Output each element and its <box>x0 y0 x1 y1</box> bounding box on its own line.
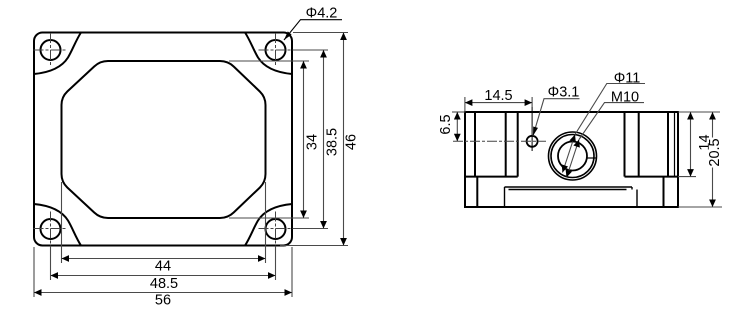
dim line 56 <box>34 292 292 294</box>
svg-text:Φ3.1: Φ3.1 <box>548 84 580 100</box>
inner vertical right 3 <box>624 112 626 177</box>
body ear curve top-right <box>245 33 292 75</box>
svg-text:38.5: 38.5 <box>325 128 341 156</box>
leader M10 <box>579 103 644 140</box>
radial line right <box>587 157 597 159</box>
inner vertical right 2 <box>638 112 640 177</box>
dim line 6.5 <box>456 112 458 141</box>
step line right <box>625 176 679 178</box>
text 20.5 (rotated) <box>709 138 721 168</box>
inner vertical left 3 <box>517 112 519 177</box>
ext 48.5 right solid part <box>275 246 277 280</box>
extension lines left view <box>34 33 348 298</box>
svg-text:48.5: 48.5 <box>150 276 178 292</box>
dim line 20.5 <box>712 112 714 207</box>
svg-text:20.5: 20.5 <box>707 138 723 166</box>
dim line 38.5 <box>323 50 325 229</box>
ext 56 left <box>33 247 35 297</box>
ext top edge right (14 / 20.5) <box>678 111 720 113</box>
centerline BR hole <box>259 228 329 230</box>
ext 38.5 top solid part <box>293 49 328 51</box>
svg-text:M10: M10 <box>611 89 639 105</box>
dim line 14 <box>690 112 692 177</box>
extension lines right view <box>452 97 722 207</box>
ext bottom right (20.5) <box>678 206 722 208</box>
svg-text:56: 56 <box>155 293 171 309</box>
dim line 46 <box>343 33 345 246</box>
ext top edge left (6.5) <box>452 111 465 113</box>
middle circle M10 <box>551 135 594 178</box>
top face octagon with chamfered corners <box>62 61 266 218</box>
outer circle Phi11 <box>549 132 597 180</box>
mounting hole top-left <box>41 40 61 60</box>
inner vertical left 1 <box>474 112 476 177</box>
leader Phi3.1 <box>533 99 580 136</box>
ext 34 bottom <box>229 217 309 219</box>
ext 14.5 left <box>464 97 466 112</box>
bottom recess plate top line <box>505 186 633 188</box>
bottom recess plate second line <box>509 189 627 191</box>
mounting hole bottom-left <box>41 219 61 239</box>
side view outline <box>465 112 678 207</box>
leader Phi11 <box>575 84 645 135</box>
centerline TR hole <box>259 49 329 51</box>
ext 44 right <box>265 182 267 263</box>
ext 56 right <box>291 247 293 297</box>
dim line 44 <box>62 258 266 260</box>
ext 44 left <box>61 182 63 263</box>
body ear curve top-left <box>34 33 81 75</box>
body ear curve bottom-left <box>34 204 81 246</box>
recess plate end notch <box>631 187 633 190</box>
small hole centerline vertical <box>531 107 533 151</box>
mounting hole top-right <box>266 40 286 60</box>
svg-text:6.5: 6.5 <box>438 114 454 134</box>
threaded hole circles <box>549 132 597 180</box>
ext 34 top <box>229 60 309 62</box>
mounting hole bottom-right <box>266 219 286 239</box>
outer housing outline <box>34 33 292 246</box>
small hole centerline horizontal <box>453 140 546 142</box>
dim line through circle M10 <box>567 140 580 178</box>
label Phi4.2 leader <box>284 20 342 40</box>
svg-text:46: 46 <box>344 134 360 150</box>
ext step right (14) <box>678 176 696 178</box>
ext 48.5 left solid part <box>50 246 52 280</box>
inner vertical left 2 <box>505 112 507 177</box>
centerline BL hole <box>34 228 68 230</box>
svg-text:34: 34 <box>305 134 321 150</box>
centerline TL hole <box>34 49 68 51</box>
small hole Phi3.1 <box>527 136 538 147</box>
ext 46 top <box>293 32 348 34</box>
ext 14.5 right <box>531 97 533 107</box>
dim line 34 <box>303 61 305 218</box>
ext 46 bottom <box>280 245 348 247</box>
svg-text:44: 44 <box>155 259 171 275</box>
recess right vertical <box>636 190 638 208</box>
lower step vertical left <box>476 177 478 207</box>
lower step vertical right <box>663 177 665 207</box>
leader arrow Phi3.1 <box>533 127 538 136</box>
step line left <box>465 176 518 178</box>
ext 38.5 bottom solid part <box>293 228 328 230</box>
svg-text:14.5: 14.5 <box>484 88 512 104</box>
leader arrow Phi4.2 <box>284 31 292 40</box>
body ear curve bottom-right <box>245 204 292 246</box>
svg-text:Φ11: Φ11 <box>614 70 641 86</box>
inner hole circle <box>558 142 587 171</box>
dim line 14.5 <box>465 102 532 104</box>
dimension lines left view <box>34 33 344 293</box>
solid ext overlay segments <box>51 50 329 280</box>
dim line 48.5 <box>51 275 276 277</box>
hole centerlines (dashed) <box>34 33 329 280</box>
dim line through circle Phi11 <box>563 135 576 173</box>
inner vertical right 1 <box>667 112 669 177</box>
inner edge line right <box>674 112 676 177</box>
svg-text:Φ4.2: Φ4.2 <box>306 5 338 21</box>
recess left vertical <box>504 187 506 207</box>
